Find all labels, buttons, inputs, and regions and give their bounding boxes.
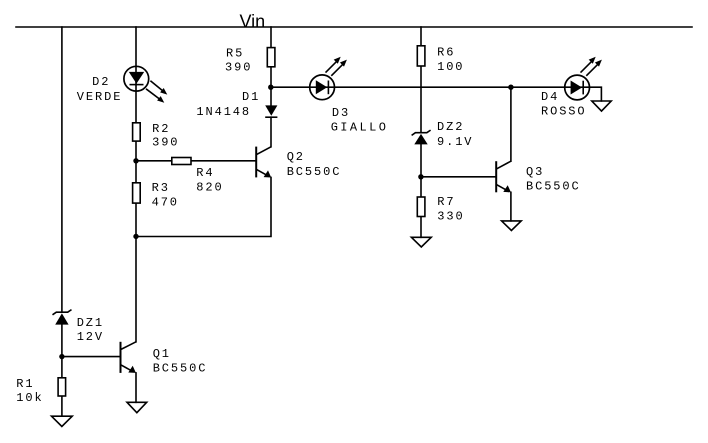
wire R4 row from node to Q2 base [136,160,256,162]
transistor Q3 [496,161,511,192]
svg-text:330: 330 [437,210,464,224]
wire Vin rail through R6 to DZ2 cathode [420,27,422,133]
svg-text:820: 820 [196,181,223,195]
junction node Q2 emitter/Q1 collector [133,234,138,239]
svg-text:R5: R5 [226,47,244,61]
resistor R5 body [267,48,275,67]
junction node DZ1/R1/Q1 base [59,354,64,359]
svg-text:BC550C: BC550C [287,165,342,179]
transistor Q1 [121,342,137,373]
svg-text:VERDE: VERDE [77,90,123,104]
wire Vin rail through D2 to R2 top [135,27,137,123]
transistor Q2 [256,147,271,178]
svg-text:R1: R1 [16,377,34,391]
wire DZ1 anode to R1 top [61,325,63,378]
svg-text:Q3: Q3 [526,165,544,179]
resistor R2 body [133,123,141,141]
wire DZ2 anode through node to R7 top [420,144,422,197]
svg-text:D4: D4 [541,90,559,104]
svg-text:Vin: Vin [240,11,266,31]
svg-text:12V: 12V [77,330,104,344]
wire Vin top rail [16,26,692,28]
svg-text:R2: R2 [152,122,170,136]
wire Vin rail through R5 to D1 anode [270,27,272,106]
svg-text:100: 100 [437,60,464,74]
resistor R1 body [58,378,66,396]
svg-text:R6: R6 [437,46,455,60]
svg-text:ROSSO: ROSSO [541,105,587,119]
svg-text:BC550C: BC550C [526,179,581,193]
resistor R6 body [417,46,425,66]
wire Q1 emitter to ground [135,373,137,402]
svg-text:R4: R4 [196,166,214,180]
svg-text:390: 390 [225,60,252,74]
wire D1 cathode to Q2 collector [270,117,272,147]
svg-text:DZ1: DZ1 [77,316,104,330]
wire Q2 emitter down and left to node [136,177,271,236]
wire LED row from R5 node through D3 and D4 to ground corner [271,87,602,101]
ground below R1 [52,416,73,426]
svg-text:D1: D1 [242,90,260,104]
junction node R2/R3/R4 [133,158,138,163]
wire Q3 emitter to ground [510,192,512,221]
junction node R5/D1/D3 [268,85,273,90]
wire Q3 collector up to LED row node [510,87,512,161]
junction node D4/Q3 collector [508,85,513,90]
svg-text:GIALLO: GIALLO [331,120,389,134]
svg-text:9.1V: 9.1V [437,135,473,149]
resistor R3 body [133,183,141,203]
svg-text:390: 390 [152,135,179,149]
ground below D4 [592,101,611,111]
wire R7 bottom to ground [420,217,422,238]
LED D2 [124,66,167,102]
resistor R4 body [172,158,191,165]
ground below R7 [411,237,431,247]
wire R2 bottom through junctions to Q1 collector [135,141,137,342]
zener diode DZ2 [412,130,431,144]
svg-text:D2: D2 [92,75,110,89]
wire Vin rail to DZ1 cathode [61,27,63,312]
svg-text:470: 470 [152,195,179,209]
svg-text:1N4148: 1N4148 [196,105,251,119]
svg-text:D3: D3 [332,106,350,120]
diode D1 [265,105,277,117]
resistor R7 body [417,197,425,217]
wire Q1 base [62,356,121,358]
ground below Q3 emitter [502,221,522,231]
svg-text:Q2: Q2 [287,150,305,164]
svg-text:R7: R7 [437,195,455,209]
svg-text:R3: R3 [152,181,170,195]
LED D3 [310,57,347,100]
svg-text:BC550C: BC550C [153,362,208,376]
zener diode DZ1 [53,310,72,325]
ground below Q1 emitter [127,402,147,412]
svg-text:10k: 10k [16,391,43,405]
LED D4 [565,57,602,100]
svg-text:Q1: Q1 [153,347,171,361]
wire Q3 base [421,176,496,178]
svg-text:DZ2: DZ2 [437,120,464,134]
junction node DZ2/R7/Q3 base [418,174,423,179]
wire R1 bottom to ground [61,396,63,416]
